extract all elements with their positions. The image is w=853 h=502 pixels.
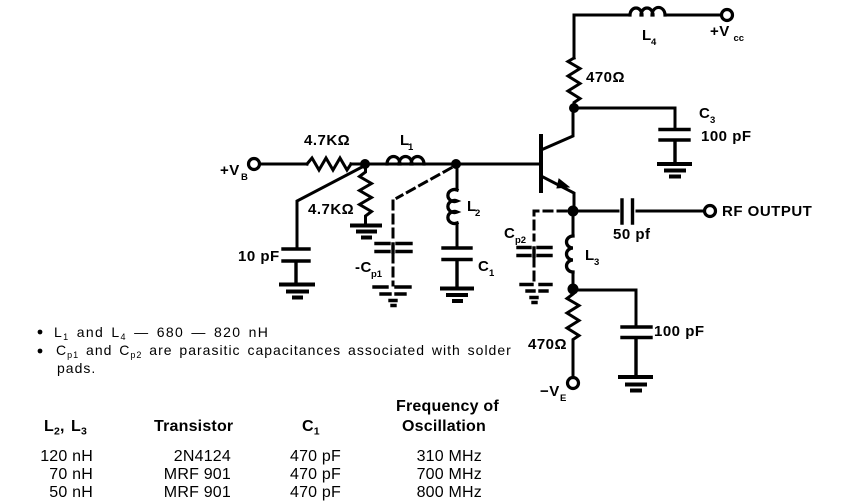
svg-text:E: E [560, 393, 566, 404]
svg-text:120 nH: 120 nH [40, 448, 93, 465]
wire base rail from +VB to transistor base [260, 163, 539, 166]
wire diagonal from node A to 10pF branch [297, 167, 362, 246]
svg-text:-C: -C [355, 259, 372, 276]
resistor 4.7K vertical [360, 169, 372, 224]
wire collector node to C3 [579, 108, 675, 127]
svg-text:2N4124: 2N4124 [174, 448, 231, 465]
svg-text:RF OUTPUT: RF OUTPUT [722, 203, 812, 220]
inductor L1 [387, 157, 424, 164]
svg-text:pads.: pads. [57, 360, 96, 376]
svg-text:1: 1 [489, 268, 495, 279]
terminal RF OUTPUT [705, 206, 716, 217]
svg-text:2: 2 [475, 208, 480, 219]
transistor Q1 emitter lead with arrow [541, 176, 574, 206]
svg-text:3: 3 [710, 115, 715, 126]
wire node B down to L2 [456, 169, 459, 246]
svg-text:50 nH: 50 nH [49, 484, 93, 501]
capacitor 100 pF bottom [622, 327, 651, 375]
svg-text:Oscillation: Oscillation [402, 418, 486, 435]
transistor Q1 base bar [539, 136, 543, 191]
svg-text:p2: p2 [515, 235, 526, 246]
svg-text:10 pF: 10 pF [238, 248, 280, 265]
inductor L3 [567, 236, 574, 272]
svg-text:4.7KΩ: 4.7KΩ [304, 132, 350, 149]
wire node C to 100pF [578, 290, 636, 325]
capacitor C3 [660, 130, 689, 163]
inductor L4 [630, 7, 665, 15]
svg-text:+V: +V [710, 23, 730, 40]
ground below C3 [659, 164, 690, 177]
capacitor 10 pF [283, 249, 309, 283]
svg-text:B: B [241, 172, 248, 183]
svg-text:700 MHz: 700 MHz [417, 466, 482, 483]
svg-text:800 MHz: 800 MHz [417, 484, 482, 501]
ground Cp1 dashed [374, 287, 410, 306]
capacitor Cp2 dashed plates [518, 248, 551, 257]
svg-text:470 pF: 470 pF [290, 466, 341, 483]
svg-text:470 pF: 470 pF [290, 448, 341, 465]
svg-text:470 pF: 470 pF [290, 484, 341, 501]
svg-text:100 pF: 100 pF [701, 128, 752, 145]
svg-text:C: C [504, 225, 515, 242]
emitter node dot [568, 206, 579, 217]
wire top rail to resistor [574, 15, 721, 58]
ground below C1 [442, 289, 472, 302]
svg-text:Frequency of: Frequency of [396, 398, 499, 415]
svg-text:3: 3 [594, 257, 599, 268]
note bullet 1 [38, 330, 43, 335]
parasitic capacitance Cp1 dashed branch [393, 168, 451, 285]
svg-text:4.7KΩ: 4.7KΩ [308, 201, 354, 218]
wire emitter node down to L3 [572, 216, 575, 284]
node A junction dot [360, 159, 370, 169]
transistor Q1 collector lead [541, 113, 573, 150]
svg-text:50 pf: 50 pf [613, 226, 651, 243]
inductor L2 [448, 190, 457, 224]
terminal +Vcc [722, 10, 733, 21]
svg-text:p1: p1 [371, 269, 383, 280]
svg-text:−V: −V [540, 383, 560, 400]
svg-text:1: 1 [408, 142, 414, 153]
svg-text:cc: cc [734, 33, 745, 44]
terminal +VB [249, 159, 260, 170]
svg-text:470Ω: 470Ω [528, 336, 567, 353]
ground below 4.7K vertical [352, 226, 380, 238]
capacitor Cp1 dashed plates [376, 244, 411, 253]
node B junction dot [451, 159, 461, 169]
node C junction dot [568, 284, 579, 295]
collector node dot [569, 103, 579, 113]
note bullet 2 [38, 349, 43, 354]
svg-text:470Ω: 470Ω [586, 69, 625, 86]
resistor 4.7K horizontal [307, 158, 351, 170]
ground Cp2 dashed [521, 285, 551, 303]
terminal -VE [568, 378, 579, 389]
capacitor 50 pf [622, 200, 633, 223]
resistor 470 ohm emitter [567, 294, 579, 377]
parasitic capacitance Cp2 dashed branch [534, 211, 566, 283]
svg-text:Cp1 and Cp2 are parasitic capa: Cp1 and Cp2 are parasitic capacitances a… [56, 342, 512, 360]
resistor 470 ohm collector [568, 58, 580, 103]
wire emitter node to 50pf cap [578, 210, 704, 213]
svg-text:L3: L3 [71, 418, 87, 438]
ground below 10 pF [281, 285, 313, 298]
svg-text:4: 4 [651, 37, 657, 48]
svg-text:C: C [478, 258, 489, 275]
svg-text:310 MHz: 310 MHz [417, 448, 482, 465]
svg-text:Transistor: Transistor [154, 418, 233, 435]
svg-text:MRF 901: MRF 901 [164, 484, 231, 501]
svg-text:70 nH: 70 nH [49, 466, 93, 483]
table row 1 [40, 448, 482, 501]
svg-text:MRF 901: MRF 901 [164, 466, 231, 483]
svg-text:L2,: L2, [44, 418, 65, 438]
svg-text:L1 and L4 — 680 — 820 nH: L1 and L4 — 680 — 820 nH [54, 324, 269, 342]
svg-text:100 pF: 100 pF [654, 323, 705, 340]
ground below 100 pF [620, 377, 651, 391]
svg-text:+V: +V [220, 162, 240, 179]
svg-text:C: C [699, 105, 710, 122]
svg-text:C1: C1 [302, 418, 320, 438]
capacitor C1 [443, 248, 471, 287]
